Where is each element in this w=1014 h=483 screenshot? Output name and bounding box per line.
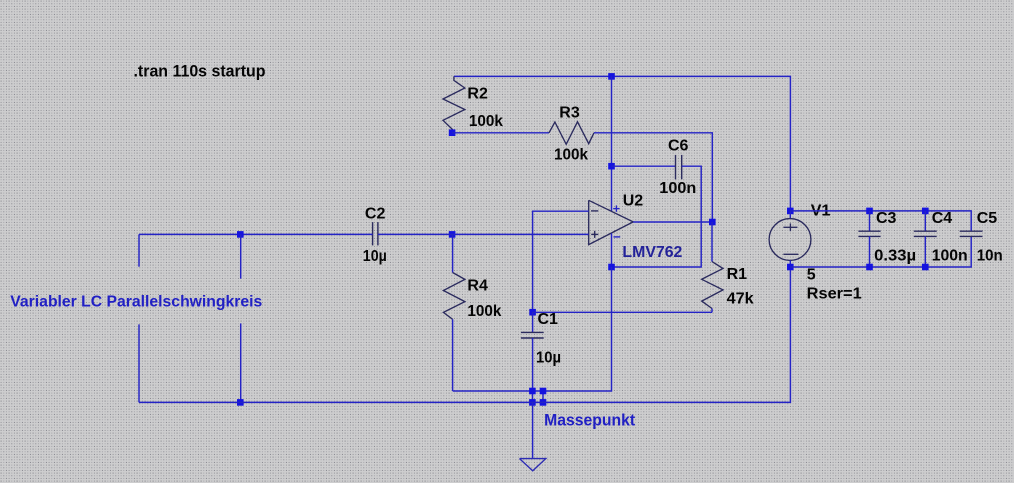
resistor R4: [443, 273, 465, 320]
svg-text:C1: C1: [538, 311, 559, 328]
node ground cluster NW: [529, 388, 536, 395]
wire ground stub x=543: [542, 391, 544, 402]
node ground cluster SW: [529, 399, 536, 406]
svg-text:10µ: 10µ: [536, 350, 561, 367]
node feedback / C1 top: [529, 309, 536, 316]
wire R4 bottom lead: [452, 319, 454, 391]
wire V- down to ground rail: [453, 267, 612, 391]
U2 non-inverting input marker: [591, 231, 598, 238]
wire LC loop mid vertical upper stub: [240, 234, 242, 278]
node ground cluster NE: [540, 388, 547, 395]
wire C4 bottom lead: [924, 236, 926, 267]
svg-text:C5: C5: [977, 210, 998, 227]
svg-text:100k: 100k: [554, 146, 588, 163]
wire main horizontal right of C2 to +input: [378, 233, 589, 235]
node ground cluster SE: [540, 399, 547, 406]
wire V+ supply line: [611, 76, 613, 211]
wire op-amp output: [633, 221, 712, 223]
wire LC loop mid vertical lower stub: [240, 323, 242, 402]
svg-text:LMV762: LMV762: [622, 244, 682, 261]
svg-text:47k: 47k: [727, 291, 754, 308]
node V- junction: [608, 264, 615, 271]
svg-text:100n: 100n: [932, 248, 968, 265]
resistor R2: [443, 76, 465, 132]
wire main horizontal left of C2: [139, 233, 373, 235]
wire C6 right to V- rail: [612, 166, 702, 267]
wire LC loop left vertical upper stub: [138, 234, 140, 266]
svg-text:.tran 110s startup: .tran 110s startup: [134, 62, 266, 81]
U2 V- pin marker: [614, 236, 621, 238]
svg-text:R1: R1: [727, 266, 748, 283]
capacitor C5: [960, 230, 983, 232]
wire R3 left lead: [452, 132, 549, 134]
svg-text:100k: 100k: [469, 113, 503, 130]
resistor R1: [702, 262, 723, 309]
wire LC loop left vertical lower stub: [138, 324, 140, 402]
wire R3 right to output node: [594, 133, 712, 222]
wire C6 left lead: [612, 165, 676, 167]
op-amp U2 triangle: [589, 200, 634, 244]
svg-text:R2: R2: [467, 86, 488, 103]
wire top rail from R2 to V1: [454, 76, 791, 211]
resistor R3: [549, 122, 594, 145]
svg-text:100n: 100n: [659, 180, 696, 197]
wire C1 bottom lead: [532, 338, 534, 391]
wire bottom rail to V1 minus: [139, 267, 790, 402]
capacitor C3: [858, 230, 880, 232]
node V1 minus: [787, 264, 794, 271]
wire C4 top lead: [924, 211, 926, 231]
V1 minus marker: [783, 253, 798, 255]
voltage source V1: [769, 219, 811, 261]
svg-text:R4: R4: [467, 278, 488, 295]
node C3 bottom: [866, 264, 873, 271]
V1 plus marker: [783, 223, 797, 231]
svg-text:C6: C6: [668, 137, 689, 154]
svg-text:10µ: 10µ: [363, 248, 387, 265]
wire V1 top stub: [789, 211, 791, 219]
node C4 bottom: [922, 264, 929, 271]
wire feedback to R1 bottom: [533, 311, 712, 313]
capacitor C4: [914, 230, 937, 232]
U2 inverting input marker: [591, 210, 598, 212]
node R2/R3 junction: [449, 129, 456, 136]
capacitor C6: [675, 155, 677, 179]
wire decoupling top rail: [790, 211, 971, 231]
wire C1 top lead: [532, 312, 534, 332]
node top rail / V+ junction: [608, 73, 615, 80]
wire R1 top lead: [711, 222, 713, 262]
node V1 plus: [787, 208, 794, 215]
wire R4 top lead: [452, 234, 454, 272]
node LC loop top: [237, 231, 244, 238]
node output junction: [709, 219, 716, 226]
wire V1 bottom stub: [789, 260, 791, 267]
wire decoupling bottom rail: [790, 236, 971, 267]
svg-text:Massepunkt: Massepunkt: [544, 411, 635, 429]
wire ground symbol lead: [532, 402, 534, 458]
svg-text:5: 5: [807, 267, 816, 284]
svg-text:0.33µ: 0.33µ: [874, 248, 916, 265]
wire U2 V- pin: [611, 233, 613, 267]
node C6 tap on V+: [608, 163, 615, 170]
node C3 top: [866, 208, 873, 215]
U2 V+ pin marker: [613, 205, 619, 211]
svg-text:C4: C4: [932, 210, 953, 227]
svg-text:Variabler LC Parallelschwingkr: Variabler LC Parallelschwingkreis: [10, 294, 262, 311]
wire ground stub x=532.5: [532, 391, 534, 402]
wire inverting input: [533, 211, 589, 312]
svg-text:R3: R3: [559, 105, 580, 122]
svg-text:C2: C2: [365, 205, 386, 222]
ground symbol: [520, 459, 546, 471]
wire R1 bottom lead: [711, 309, 713, 313]
wire C3 top lead: [869, 211, 871, 231]
node LC loop bottom: [237, 399, 244, 406]
capacitor C2: [372, 222, 374, 245]
svg-text:C3: C3: [876, 210, 897, 227]
svg-text:U2: U2: [623, 193, 644, 210]
svg-text:Rser=1: Rser=1: [807, 285, 862, 302]
wire C3 bottom lead: [869, 236, 871, 267]
node C4 top: [922, 208, 929, 215]
node C2/R4 junction: [449, 231, 456, 238]
svg-text:10n: 10n: [977, 248, 1003, 265]
svg-text:100k: 100k: [467, 303, 501, 320]
capacitor C1: [521, 331, 544, 333]
